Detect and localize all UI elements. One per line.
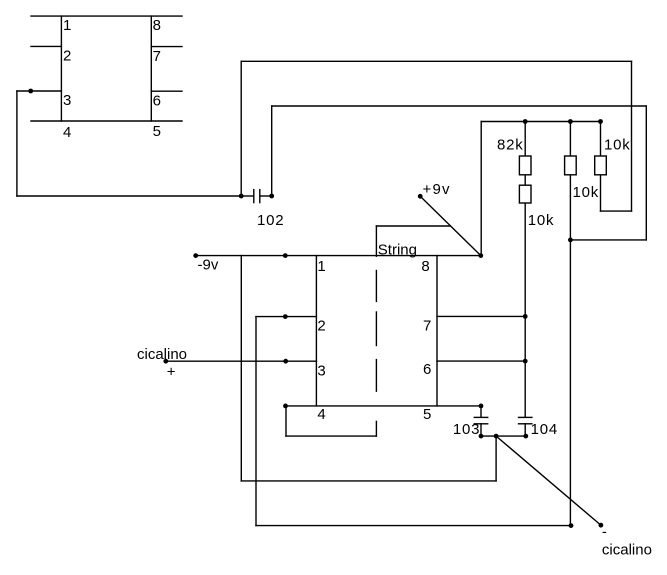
svg-text:6: 6: [153, 93, 161, 110]
svg-text:8: 8: [153, 17, 161, 34]
svg-text:8: 8: [421, 258, 429, 275]
svg-text:6: 6: [423, 361, 431, 378]
svg-text:82k: 82k: [497, 136, 524, 153]
svg-text:103: 103: [453, 421, 480, 438]
svg-text:102: 102: [257, 212, 284, 229]
svg-text:10k: 10k: [604, 136, 631, 153]
svg-text:10k: 10k: [573, 184, 600, 201]
svg-text:4: 4: [63, 124, 71, 141]
svg-text:cicalino: cicalino: [137, 346, 187, 363]
svg-text:10k: 10k: [528, 212, 555, 229]
svg-text:5: 5: [423, 406, 431, 423]
svg-text:104: 104: [531, 421, 558, 438]
svg-text:1: 1: [63, 17, 71, 34]
svg-text:1: 1: [317, 258, 325, 275]
svg-text:3: 3: [63, 92, 71, 109]
svg-text:2: 2: [317, 317, 325, 334]
svg-text:String: String: [378, 242, 417, 259]
svg-text:7: 7: [423, 317, 431, 334]
svg-text:-9v: -9v: [198, 257, 219, 274]
svg-text:3: 3: [317, 363, 325, 380]
svg-text:5: 5: [153, 123, 161, 140]
svg-text:4: 4: [317, 406, 325, 423]
svg-text:2: 2: [63, 47, 71, 64]
svg-text:+9v: +9v: [423, 181, 451, 198]
svg-text:+: +: [167, 363, 176, 380]
svg-text:-: -: [602, 524, 607, 541]
svg-text:7: 7: [153, 48, 161, 65]
svg-text:cicalino: cicalino: [602, 542, 652, 559]
